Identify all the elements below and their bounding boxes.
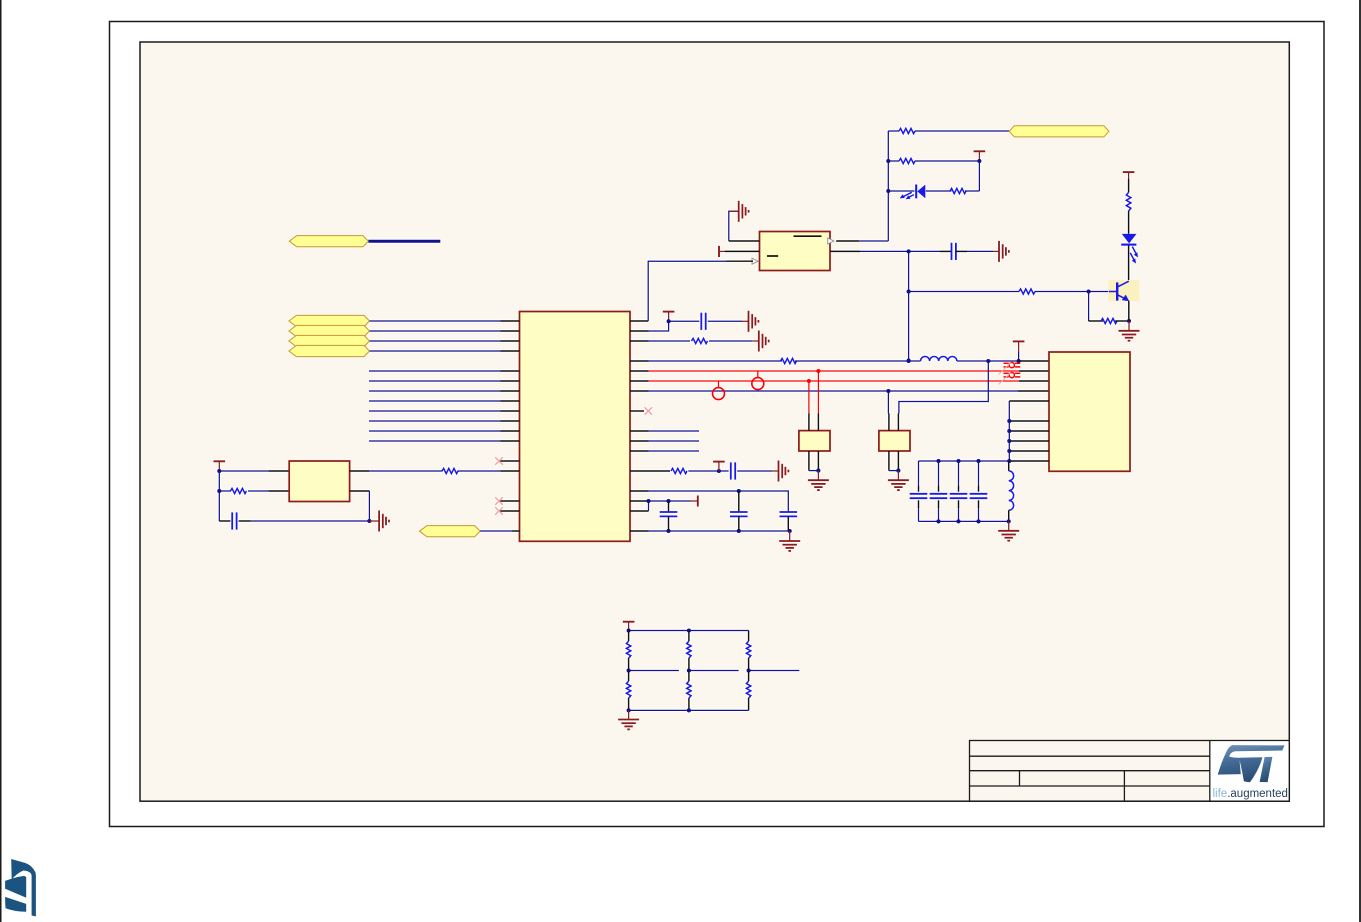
junction D1 — [907, 359, 911, 363]
capacitor C4 — [738, 491, 740, 512]
pin U2 tab — [729, 240, 760, 242]
svg-text:life.augmented: life.augmented — [1213, 788, 1288, 800]
wire osc rail — [218, 471, 220, 521]
junction K1 — [627, 628, 631, 632]
pin U2 OUT — [828, 238, 834, 244]
wire OSC out to U1 — [369, 470, 442, 472]
resistor RD5 — [748, 631, 750, 642]
junction I3 — [1007, 449, 1011, 453]
junction K7 — [687, 708, 691, 712]
diode LED1 — [900, 185, 926, 200]
ground X1 stem — [817, 471, 819, 481]
pin X2 t2 — [897, 414, 899, 431]
wire R2 row — [888, 160, 899, 162]
pin U1 L16 nc — [500, 510, 520, 512]
junction F6j — [737, 529, 741, 533]
junction X2 — [896, 469, 900, 473]
port PL4 — [289, 345, 370, 356]
ground G7 stem — [789, 531, 791, 541]
pin U1 R13 — [630, 490, 649, 492]
page edge line left — [0, 0, 2, 922]
wire net L11 — [369, 430, 501, 432]
pin U3 P2 — [1019, 370, 1049, 372]
wire net L12 — [369, 440, 501, 442]
capacitor C6 — [231, 512, 233, 529]
capacitor C2 — [730, 462, 732, 479]
wire R10 row — [688, 470, 728, 472]
resistor R8 — [692, 338, 708, 343]
pin X2 b2 — [897, 451, 899, 471]
junction F1j — [717, 469, 721, 473]
capacitor CB2 — [938, 461, 940, 486]
junction J5 — [1007, 519, 1011, 523]
resistor R9 — [781, 358, 797, 363]
pin X1 t1 — [808, 414, 810, 431]
resistor R10 — [671, 468, 687, 473]
pin U3 P1 — [1019, 360, 1049, 362]
pin U1 L6 — [501, 380, 520, 382]
wire L1 to U3 — [957, 360, 1019, 362]
wire U3 bus — [1008, 401, 1010, 461]
wire R14 row — [649, 500, 691, 502]
resistor RD6 — [748, 671, 750, 682]
junction C1 — [667, 319, 671, 323]
capacitor CB4 — [978, 461, 980, 486]
power VDD2 — [1123, 171, 1135, 173]
wire div tap2 — [689, 670, 739, 672]
wire osc gnd row — [239, 520, 251, 522]
wire stub R11 — [649, 450, 700, 452]
pin U1 R6 — [630, 380, 649, 382]
pin U2 IN — [752, 258, 758, 264]
RF module U3 — [1049, 352, 1130, 471]
wire DTR — [480, 530, 512, 532]
pin U1 R2 — [630, 330, 649, 332]
junction F3j — [646, 499, 650, 503]
junction B4 — [1087, 289, 1091, 293]
resistor RD1 — [628, 631, 630, 642]
pin U1 L10 — [501, 420, 520, 422]
pin U1 R15 — [630, 510, 649, 512]
port IN_BUS — [289, 236, 368, 247]
wire R6 to LED2 — [1128, 211, 1130, 234]
resistor R1 — [899, 128, 915, 133]
wire net L6 — [369, 380, 501, 382]
wire C10 to gnd — [956, 250, 967, 252]
ground G3 stem — [1128, 321, 1130, 331]
wire net L7 — [369, 390, 501, 392]
ferrite F2 — [999, 373, 1021, 385]
port PL1 — [289, 315, 370, 326]
wire R15 up — [648, 501, 650, 511]
resistor R11 — [230, 488, 246, 493]
pin X1 t2 — [817, 414, 819, 431]
pin U1 R10 — [630, 440, 649, 442]
wire R2 up — [649, 321, 669, 331]
pin U3 P5 — [1009, 400, 1049, 402]
logo cell — [1211, 741, 1289, 800]
ground G1 — [739, 201, 749, 222]
wire R4 row — [649, 360, 783, 362]
wire USBDP drop — [808, 381, 810, 414]
junction E3 — [886, 389, 890, 393]
pin U1 L4 — [501, 350, 520, 352]
wire net L9 — [369, 410, 501, 412]
ground G10 stem — [628, 710, 630, 719]
wire R4 to base — [1035, 291, 1109, 293]
junction J2t — [956, 459, 960, 463]
schematic sheet background — [140, 42, 1289, 801]
wire C2 to gnd — [737, 470, 772, 472]
wire X1 join — [809, 470, 819, 472]
junction J2b — [956, 519, 960, 523]
pin U1 R11 — [630, 450, 649, 452]
wire Y1 gnd down — [368, 491, 370, 521]
wire cap bank bottom rail — [919, 520, 1009, 522]
pin U1 L9 — [501, 410, 520, 412]
wire R3 row — [649, 340, 691, 342]
junction F2j — [737, 489, 741, 493]
wire USBDM drop — [817, 371, 819, 414]
ground G5 — [759, 331, 769, 352]
wire OSC32 in drop — [887, 391, 889, 414]
junction D3 — [1017, 359, 1021, 363]
pin X2 t1 — [888, 414, 890, 431]
ground G3 — [1119, 331, 1140, 341]
wire net L10 — [369, 420, 501, 422]
wire vertical VOUT riser — [887, 131, 889, 241]
ground G8 — [379, 511, 389, 532]
pin U3 P6 — [1009, 420, 1049, 422]
pin U1 L12 — [501, 440, 520, 442]
wire VDD4 stem — [1018, 352, 1020, 361]
wire osc res lead — [219, 490, 231, 492]
wire base-emitter left leg — [1088, 292, 1090, 322]
wire LED2 to collector — [1128, 246, 1130, 281]
ground G10 — [618, 720, 639, 730]
pin U1 L7 — [501, 390, 520, 392]
junction B1 — [907, 249, 911, 253]
capacitor C1 — [700, 313, 702, 330]
pin U1 R16 — [630, 530, 649, 532]
wire gnd rail row — [649, 530, 790, 532]
crystal X2 — [879, 431, 910, 451]
junction E1 — [816, 369, 820, 373]
junction B5 — [1127, 319, 1131, 323]
wire osc vdd row — [219, 470, 268, 472]
junction D2 — [986, 359, 990, 363]
wire R5 to emitter — [1115, 320, 1129, 322]
pin U1 L11 — [501, 430, 520, 432]
ground G7 — [779, 541, 800, 551]
transistor Q1 — [1108, 280, 1139, 301]
MCU U1 — [520, 312, 631, 542]
pin U3 P10 — [1009, 460, 1049, 462]
wire base row — [909, 291, 1019, 293]
wire net L5 — [369, 370, 501, 372]
ferrite F1 — [999, 363, 1021, 375]
junction K2 — [687, 628, 691, 632]
pin U1 R4 — [630, 360, 649, 362]
wire LED row left — [888, 190, 914, 192]
pin Y1 out — [350, 470, 370, 472]
bus wire — [368, 240, 440, 243]
wire R13 row — [649, 491, 789, 512]
wire halo layer — [214, 128, 1140, 729]
ground X2 stem — [897, 471, 899, 481]
pin X2 b1 — [888, 451, 890, 471]
capacitor C3 — [668, 501, 670, 512]
resistor R5 — [1101, 318, 1117, 323]
title block — [970, 741, 1290, 802]
resistor R2 — [899, 158, 915, 163]
junction E2 — [807, 379, 811, 383]
ground G-X2 — [888, 480, 909, 490]
ground G9 stem — [1008, 521, 1010, 530]
pin X1 b2 — [817, 451, 819, 471]
junction H3 — [367, 519, 371, 523]
capacitor C10 — [951, 243, 953, 260]
wire R9 to L1 — [795, 360, 921, 362]
testpoint TP1 — [752, 371, 764, 390]
power VDD4 — [1013, 340, 1025, 342]
junction B3 — [907, 358, 911, 362]
wire div top rail — [629, 630, 749, 632]
wire PL4 to U1 — [370, 350, 501, 352]
power VDD3 — [663, 311, 675, 313]
wire div bottom rail — [629, 709, 749, 711]
wire IN from MCU — [648, 261, 726, 321]
resistor R4 — [1019, 289, 1035, 294]
wire R8 to gnd — [709, 340, 752, 342]
resistor R6 — [1126, 192, 1131, 210]
junction K6 — [627, 708, 631, 712]
wire R1 to port — [915, 130, 1009, 132]
diode LED2 — [1121, 234, 1138, 264]
wire VOUT2 down rail — [908, 251, 910, 360]
regulator U2 — [760, 232, 831, 271]
wire VSENSE — [649, 390, 1019, 392]
wire cap bank top rail — [919, 460, 1010, 462]
ground G6 — [779, 461, 789, 482]
junction K5 — [747, 668, 751, 672]
ground G9 — [998, 531, 1019, 541]
wire div tap3 — [749, 670, 800, 672]
pin U1 R14 — [630, 500, 649, 502]
wire X2 join — [889, 470, 899, 472]
wire USBDP red — [649, 380, 1019, 382]
wire PL3 to U1 — [370, 340, 501, 342]
crystal X1 — [799, 431, 830, 451]
power VDD5 — [713, 461, 725, 463]
pin Y1 b — [269, 490, 290, 492]
wire PL2 to U1 — [370, 330, 501, 332]
outer border frame — [110, 22, 1325, 827]
junction J1b — [936, 519, 940, 523]
wire VDD3 row — [669, 320, 700, 322]
wire tab to gnd — [729, 211, 739, 241]
junction A3 — [886, 189, 890, 193]
pin U1 L15 nc — [500, 500, 520, 502]
pin U1 R8 nc — [630, 410, 644, 412]
page edge line right — [1359, 0, 1361, 922]
capacitor CB3 — [958, 461, 960, 486]
oscillator Y1 — [289, 461, 349, 502]
junction K3 — [627, 668, 631, 672]
testpoint TP2 — [713, 381, 725, 400]
power VDD6 — [214, 460, 226, 462]
wire net L8 — [369, 400, 501, 402]
wire emitter res row — [1089, 320, 1103, 322]
wire LED to R3 — [926, 190, 952, 192]
pin U2 VIN-EN — [725, 250, 760, 252]
ground G2 — [999, 241, 1009, 262]
ground G4 — [749, 311, 759, 332]
pin U1 L14 — [501, 470, 520, 472]
pin U3 P7 — [1009, 430, 1049, 432]
pin U1 L1 — [501, 320, 520, 322]
pin U1 R1 — [630, 320, 648, 322]
wire C1 to gnd — [708, 320, 742, 322]
junction J1t — [936, 459, 940, 463]
junction H1 — [217, 469, 221, 473]
junction F4j — [666, 499, 670, 503]
wire R1 row — [888, 130, 899, 132]
port PL2 — [289, 325, 370, 336]
junction A2 — [977, 159, 981, 163]
wire R7 to U1 — [458, 470, 501, 472]
power VDD1 — [974, 150, 986, 152]
pin Y1 gnd — [350, 490, 370, 492]
wire stub R9 — [649, 430, 700, 432]
pin U1 L2 — [501, 330, 520, 332]
resistor RD4 — [688, 671, 690, 682]
resistor R3 — [950, 188, 966, 193]
wire OUT to riser — [859, 240, 888, 242]
junction B2 — [907, 289, 911, 293]
wire VOUT2 — [860, 250, 940, 252]
port DTR — [420, 526, 481, 537]
junction A1 — [886, 159, 890, 163]
wire USBDM red — [649, 370, 1019, 372]
junction J3t — [976, 459, 980, 463]
pin U1 L3 — [501, 340, 520, 342]
wire OSC32 out — [899, 361, 988, 414]
resistor R7 — [442, 468, 458, 473]
wire R11 to Y1 — [248, 490, 269, 492]
pin U2 VOUT2 — [830, 250, 860, 252]
junction K4 — [687, 668, 691, 672]
power tap U2 enable — [718, 246, 720, 257]
pin U1 L5 — [501, 370, 520, 372]
pin U1 R9 — [630, 430, 649, 432]
wire VDD1 down — [978, 161, 980, 191]
wire div tap1 — [629, 670, 679, 672]
junction X1 — [816, 469, 820, 473]
wire R2 to VDD — [915, 160, 979, 162]
pin U3 P4 — [1018, 390, 1049, 392]
junction I4 — [1007, 459, 1011, 463]
junction J3b — [976, 519, 980, 523]
pin U3 P9 — [1009, 450, 1049, 452]
wire emitter down — [1128, 301, 1130, 321]
wire stub R10 — [649, 440, 700, 442]
pin U3 P3 — [1019, 380, 1049, 382]
pin X1 b1 — [808, 451, 810, 471]
junction I0 — [1007, 419, 1011, 423]
junction I1 — [1007, 429, 1011, 433]
resistor RD2 — [628, 671, 630, 682]
pin Y1 a — [269, 470, 290, 472]
pin U1 R12 — [630, 470, 670, 472]
junction I2 — [1007, 439, 1011, 443]
port PL3 — [289, 335, 370, 346]
corner ST logo — [5, 859, 36, 916]
port VOUT — [1009, 126, 1109, 137]
power tap right — [690, 500, 698, 502]
pin U3 P8 — [1009, 440, 1049, 442]
wire VDD2 to R6 — [1128, 179, 1130, 192]
resistor RD3 — [688, 631, 690, 642]
pin U1 R5 — [630, 370, 649, 372]
pin U1 L8 — [501, 400, 520, 402]
junction H2 — [217, 489, 221, 493]
capacitor C5 — [780, 511, 798, 513]
pin U1 R7 — [630, 390, 649, 392]
junction F7j — [788, 529, 792, 533]
capacitor CB1 — [918, 461, 920, 486]
power VDD7 — [623, 621, 635, 623]
inductor L2 — [1008, 461, 1010, 471]
pin U1 R3 — [630, 340, 649, 342]
wire PL1 to U1 — [370, 320, 501, 322]
junction F5j — [666, 529, 670, 533]
wire R3 to corner — [965, 190, 979, 192]
ST logo — [1218, 745, 1285, 782]
pin U1 L13 nc — [500, 460, 520, 462]
ground G-X1 — [808, 480, 829, 490]
pin U1 L17 — [512, 530, 520, 532]
inductor L1 — [921, 356, 957, 361]
